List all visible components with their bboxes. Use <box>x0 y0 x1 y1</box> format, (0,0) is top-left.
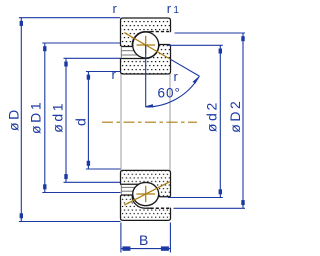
d arrows <box>87 75 90 80</box>
svg-text:r: r <box>174 69 179 84</box>
oD dimension <box>20 18 22 222</box>
centerline (orange dash-dot) <box>102 121 197 123</box>
ball top <box>133 32 159 58</box>
ball cross bottom (orange) <box>137 186 156 202</box>
oD1 dimension <box>44 43 46 193</box>
cage (ladder) bottom <box>121 185 137 195</box>
svg-text:d: d <box>73 118 89 126</box>
svg-text:60°: 60° <box>158 86 181 101</box>
60deg vertical reference <box>145 45 147 107</box>
od1 arrows <box>64 62 67 67</box>
svg-text:r: r <box>112 67 117 82</box>
cage (ladder) top <box>121 47 137 58</box>
outer ring low-shoulder edge dashed (top) <box>151 31 171 33</box>
outer ring top section <box>121 18 171 47</box>
60deg contact line extension <box>171 59 200 76</box>
od2 dimension <box>219 45 221 197</box>
60deg arc <box>146 76 200 107</box>
arc arrow at vertical <box>145 104 154 107</box>
B dimension line <box>121 248 170 250</box>
svg-text:øD2: øD2 <box>227 99 243 133</box>
svg-text:ød2: ød2 <box>204 100 220 132</box>
svg-text:øD1: øD1 <box>27 100 43 134</box>
oD2 dimension <box>242 33 244 208</box>
svg-text:r: r <box>113 1 118 16</box>
svg-text:øD: øD <box>6 107 22 131</box>
arc arrow at contact line <box>193 76 200 84</box>
gray face connector line left <box>120 74 122 170</box>
od2 arrows <box>219 49 222 54</box>
inner ring top section <box>121 45 171 75</box>
svg-text:ød1: ød1 <box>50 101 66 133</box>
oD2 arrows <box>241 36 244 41</box>
B arrows <box>122 246 130 250</box>
svg-text:r: r <box>167 1 172 16</box>
B extension lines <box>120 223 122 253</box>
svg-text:B: B <box>139 232 148 248</box>
d dimension <box>87 72 89 170</box>
od1 dimension <box>65 58 67 182</box>
contact line bottom (orange) <box>124 182 170 206</box>
ball cross top (orange) <box>124 33 170 59</box>
ball bottom <box>133 182 159 205</box>
arrowheads (blue) <box>20 21 245 251</box>
inner ring bottom section <box>121 170 171 196</box>
outer ring bottom section <box>121 195 171 220</box>
svg-text:1: 1 <box>173 5 179 16</box>
outer ring low-shoulder edge dashed (bottom) <box>151 207 171 209</box>
gray face connector line right <box>169 74 171 170</box>
oD1 arrows <box>43 46 46 51</box>
oD arrows <box>20 21 23 26</box>
